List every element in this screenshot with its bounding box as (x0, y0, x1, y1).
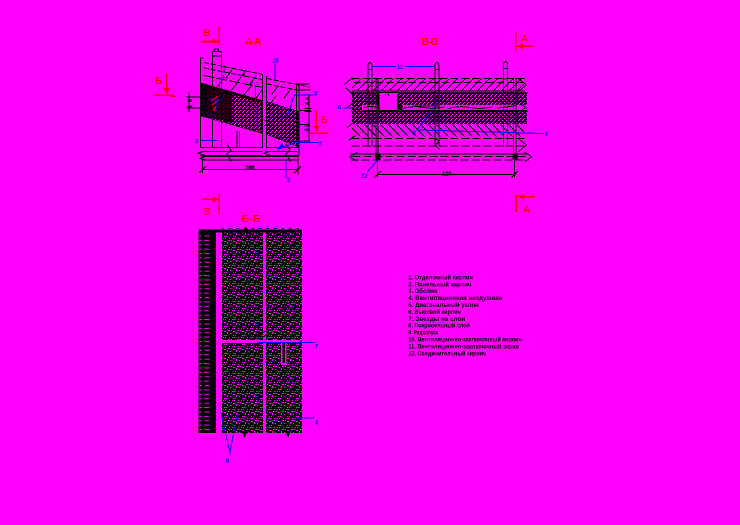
separation line 1 (352, 109, 527, 111)
svg-text:11. Вентиляционно-заключочный: 11. Вентиляционно-заключочный экран (408, 343, 519, 350)
svg-text:10. Вентиляционно-заключочный: 10. Вентиляционно-заключочный кирпич (408, 337, 522, 344)
bolt head joints (368, 69, 508, 70)
roof hatch strokes (216, 70, 262, 98)
right panel bottom (267, 147, 300, 149)
main panel (222, 230, 263, 433)
svg-text:40: 40 (305, 124, 311, 132)
svg-text:Б-Б: Б-Б (242, 213, 261, 225)
svg-text:12. Соединительный кирпич: 12. Соединительный кирпич (408, 350, 486, 357)
svg-text:А: А (521, 34, 528, 45)
red fastener scribble (212, 97, 219, 112)
svg-text:45: 45 (306, 97, 312, 105)
wall break zigzag (435, 138, 439, 150)
dimension 240 extension left (201, 160, 203, 173)
svg-text:120: 120 (442, 171, 451, 177)
post cap (214, 49, 218, 52)
channel pad bottom (216, 405, 222, 411)
svg-text:В: В (204, 207, 211, 218)
dimension 240 line (202, 169, 297, 171)
svg-text:2. Панельный кирпич: 2. Панельный кирпич (408, 281, 471, 288)
outer cladding layer hatch (352, 79, 524, 91)
svg-text:4. Вентиляционная воздушная: 4. Вентиляционная воздушная (408, 296, 503, 302)
ruler strip top cap (199, 230, 216, 233)
left break edge diagonals (345, 78, 355, 140)
band top dark seam (201, 83, 263, 103)
opening outline (379, 94, 397, 110)
masonry band upper left part (352, 93, 379, 105)
svg-text:В: В (204, 28, 211, 39)
ruler strip (199, 230, 216, 433)
roof solid slant (204, 76, 262, 88)
label 12 leader (368, 160, 378, 172)
dim 120 line (378, 173, 515, 175)
svg-text:8. Покровельный слой: 8. Покровельный слой (408, 323, 470, 330)
base plate upper left (198, 151, 204, 155)
post right line (221, 52, 223, 148)
bolt 1 stud pair (376, 79, 378, 155)
insulation band right panel (267, 102, 300, 148)
dowel pin below seam (281, 343, 287, 365)
svg-text:7. Звезды на слои: 7. Звезды на слои (408, 317, 465, 323)
left panel right edge (262, 75, 264, 148)
bolt 3 (504, 62, 508, 146)
outer cladding bottom line 2 (352, 91, 527, 93)
svg-text:11: 11 (397, 65, 404, 71)
svg-text:9. Рядоспуск: 9. Рядоспуск (408, 331, 438, 337)
base slab left chevron (350, 153, 357, 162)
base break zigzag left (227, 144, 231, 161)
svg-text:240: 240 (246, 165, 255, 171)
top tick right (287, 227, 293, 232)
base plate lower (200, 157, 206, 161)
section mark A top: arrow line (516, 32, 533, 51)
svg-text:Б: Б (321, 115, 328, 126)
section mark B bottom: arrow line (202, 195, 219, 214)
post left line (211, 52, 213, 148)
bolt 3 stud pair (514, 79, 516, 155)
inner layer hatch (352, 125, 524, 137)
dim 11 line left (372, 65, 395, 67)
second stud lines (237, 132, 239, 148)
bolt 2 (435, 63, 439, 147)
opening right border (397, 94, 399, 110)
right panel top line (297, 83, 310, 85)
horizontal seam (222, 340, 301, 343)
base slab dashed inner (353, 156, 526, 158)
dim 120 extension left (377, 161, 379, 177)
insulation band left panel (201, 83, 263, 134)
svg-text:Б: Б (155, 76, 162, 87)
label 4 leader (420, 130, 543, 134)
svg-text:В-В: В-В (422, 36, 439, 48)
svg-text:1. Отделочный кирпич: 1. Отделочный кирпич (408, 274, 473, 281)
left panel left edge (200, 58, 203, 148)
svg-text:3. Обойма: 3. Обойма (408, 288, 438, 295)
label 4 leader (297, 417, 314, 419)
label 7 leader (258, 341, 314, 343)
blue pin in post (216, 99, 218, 112)
roof dashed line 1 (204, 63, 262, 75)
svg-text:А: А (523, 205, 530, 216)
section mark Б right: arrow line (310, 112, 328, 133)
top edge tick dashes (222, 228, 301, 230)
right panel inner member right (298, 84, 300, 155)
channel slot (217, 240, 220, 405)
svg-text:10: 10 (272, 59, 279, 65)
roof dashed line 2 (204, 68, 262, 80)
section mark Б left: arrow line (155, 74, 175, 96)
svg-text:6. Выровой кирпич: 6. Выровой кирпич (408, 309, 461, 316)
dimension 240 extension right (297, 155, 299, 175)
right panel hatch strokes (270, 86, 290, 104)
gap tongue (263, 119, 268, 127)
base plate upper right (264, 151, 270, 155)
section mark A bottom: arrow line (516, 194, 534, 212)
bottom tick right (285, 432, 291, 438)
dimension 240 end ticks (199, 167, 300, 173)
right panel (266, 230, 302, 433)
separation line 2 (352, 111, 527, 113)
dim 120 ticks (375, 171, 518, 177)
inner layer dashed bottom (352, 137, 524, 139)
band dense left part (201, 83, 232, 122)
dim 120 extension right (514, 161, 516, 177)
outer cladding bottom line (352, 90, 524, 92)
left panel bottom (200, 147, 262, 149)
right panel outer edge (308, 96, 310, 141)
roof dash ticks (224, 67, 244, 77)
outer cladding top dashed (352, 77, 524, 79)
post ticks (212, 52, 221, 97)
label 8 leader (417, 102, 438, 130)
top tick left (243, 226, 248, 229)
base slab top line (351, 153, 528, 155)
section mark B top: arrow line (202, 28, 219, 45)
right panel left edge (266, 77, 268, 148)
base slab right chevron (525, 153, 532, 162)
right panel inner member left (296, 84, 298, 148)
svg-text:12: 12 (361, 174, 368, 180)
right end chevrons (519, 79, 527, 151)
svg-text:5. Диагональный уклон: 5. Диагональный уклон (408, 302, 479, 309)
air gap layer wavy strokes (352, 105, 516, 111)
bottom tick left (242, 432, 248, 438)
masonry band upper right part (399, 93, 527, 105)
masonry band lower (352, 112, 527, 124)
inner layer dashed mid (352, 145, 524, 147)
nut right (512, 154, 517, 159)
svg-text:А-А: А-А (245, 36, 262, 48)
right panel roof dashed 1 (267, 79, 309, 88)
top edge line (199, 230, 302, 233)
base slab dashed bottom (351, 159, 528, 161)
label 9 leaders (221, 413, 237, 455)
right panel roof dashed 2 (267, 84, 299, 91)
right edge ticks (299, 90, 311, 141)
channel pad top (216, 233, 222, 241)
base break zigzag right (286, 144, 290, 161)
nut left (376, 154, 381, 159)
left dimension ticks (187, 93, 201, 112)
dim 11 line right (406, 65, 435, 67)
seam diagonal joint (260, 331, 268, 339)
bolt 1 (368, 63, 372, 147)
